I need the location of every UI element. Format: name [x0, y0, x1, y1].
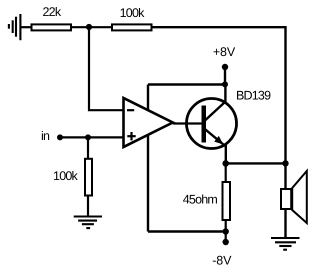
svg-text:BD139: BD139 [236, 89, 271, 103]
svg-text:22k: 22k [43, 5, 62, 19]
op-amp U1 [124, 98, 173, 147]
svg-text:100k: 100k [53, 169, 78, 183]
svg-text:45ohm: 45ohm [183, 192, 218, 206]
wire 22k to node A [72, 26, 113, 28]
wire 45ohm to node E [225, 220, 227, 232]
node -8V terminal [223, 239, 229, 245]
wire node A down to inverting input [89, 27, 124, 110]
node D junction [222, 81, 228, 87]
node +8V terminal [222, 64, 228, 70]
resistor 100k input [53, 159, 92, 196]
svg-text:in: in [41, 129, 50, 143]
ground top-left [9, 14, 21, 40]
wire collector up to node D [224, 85, 226, 103]
wire 100k to ground [87, 196, 89, 217]
node E junction [223, 228, 229, 234]
wire 100k to right edge [152, 27, 286, 163]
wire op-amp output to base [173, 122, 202, 124]
node C junction [85, 134, 91, 140]
resistor 22k [32, 5, 72, 31]
wire node F to 45ohm [225, 163, 227, 182]
node F junction [222, 160, 229, 167]
resistor 45ohm [183, 182, 230, 220]
transistor Q1 BD139 [187, 89, 272, 149]
wire in to non-inverting input [60, 136, 124, 138]
svg-text:-8V: -8V [212, 254, 232, 268]
ground under input resistor [74, 217, 102, 229]
ground under speaker [271, 238, 300, 250]
wire node B down to speaker and ground [284, 163, 286, 237]
wire ground to 22k [20, 26, 32, 28]
wire top power rail (+8V junction to op-amp V+) [148, 83, 225, 85]
speaker LS1 [281, 171, 307, 223]
wire +8V stub [224, 67, 226, 85]
svg-text:100k: 100k [120, 6, 145, 20]
wire node E to -8V terminal [225, 232, 227, 243]
wire node C down [87, 137, 89, 159]
svg-text:+8V: +8V [213, 45, 236, 59]
wire bottom power rail (op-amp V- to -8V junction) [148, 230, 226, 232]
node A junction [86, 24, 92, 30]
wire op-amp supply vertical [147, 85, 149, 232]
wire emitter down to node F [225, 145, 227, 163]
resistor 100k feedback [112, 6, 152, 31]
node B junction [282, 160, 288, 166]
wire node F to node B [226, 162, 286, 164]
node in terminal [57, 134, 63, 140]
